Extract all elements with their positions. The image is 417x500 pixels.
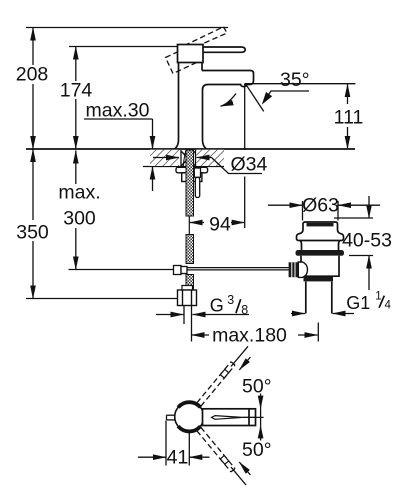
supply connection line (max300 bottom) [69,269,174,271]
svg-text:G: G [210,296,224,316]
dimension max180 [192,323,319,342]
faucet handle lever raised dashed [185,27,228,50]
handle top view circle [175,402,204,431]
dimension G3/8 [156,296,384,315]
svg-text:Ø63: Ø63 [302,195,339,217]
drain side outlet [298,262,307,277]
dimension Ø63 [268,201,380,221]
handle circle thick arcs [178,402,200,431]
drain plug cap [303,222,338,230]
svg-text:35°: 35° [280,69,310,91]
supply pipe end [184,306,192,325]
svg-text:208: 208 [16,64,49,86]
deck top line [26,148,355,150]
svg-text:174: 174 [60,80,93,102]
washer under deck [176,167,208,173]
lever top view [203,409,256,426]
dashed lever 50 down [197,427,235,472]
dimension 174 [75,47,77,150]
svg-text:max.30: max.30 [86,100,150,122]
handle base [178,45,204,63]
flow arc arrow [221,94,237,107]
faucet body [175,63,207,150]
mounting nut [182,173,202,182]
50 deg ray upper [231,346,251,370]
drain neck [301,241,340,251]
pop-up rod vertical [194,168,200,198]
drain rim [297,230,344,241]
dimension max300 [75,151,77,270]
35 degree annotation [245,84,356,228]
pop-up linkage block [174,266,188,275]
50 deg ray lower [231,462,251,485]
svg-text:300: 300 [63,208,96,230]
reference line top (lever max height) [26,27,228,29]
handle base raised dashed [166,47,197,74]
dimension max30 [84,119,153,191]
svg-text:50°: 50° [242,439,272,461]
deck bottom line [143,166,224,168]
pop-up rod horizontal [187,268,289,270]
dashed lever 50 up [197,362,235,407]
svg-text:41: 41 [167,447,189,469]
drain seal flange [296,250,345,256]
svg-text:3: 3 [227,293,234,307]
dimension 350 [32,149,34,299]
drain body [301,256,339,276]
lever tip angle reference arrows [242,394,263,441]
dimension 111 [347,84,349,149]
svg-text:Ø34: Ø34 [231,154,268,176]
svg-text:40-53: 40-53 [342,230,392,252]
svg-text:max.: max. [58,182,100,204]
drain plug lip [307,223,334,226]
svg-text:4: 4 [385,299,392,311]
svg-text:1: 1 [375,291,381,303]
shank inner hoses [183,150,191,167]
svg-text:350: 350 [16,222,49,244]
drain body lip [304,277,334,282]
outlet knurled nut [289,262,299,277]
dimension 40-53 [334,196,373,290]
deck hatch left [150,150,179,166]
drain tailpipe [306,282,332,314]
faucet shank in deck [181,150,196,167]
dimension G1 1/4 [291,313,354,315]
reference line 174 level [69,46,178,48]
deck hatch right [197,150,225,166]
braided hose upper [186,150,194,290]
svg-text:50°: 50° [242,376,272,398]
dimension Ø34 leader [153,158,262,174]
dimension 41 [138,421,210,466]
svg-text:G1: G1 [346,293,370,313]
svg-text:max.180: max.180 [212,325,287,347]
dimension 94 [190,222,245,224]
svg-text:94: 94 [209,214,231,236]
handle tab left [167,415,176,420]
hose end line (350 bottom) [26,298,178,300]
faucet handle lever [202,47,245,52]
hose fitting G3/8 [178,290,197,306]
svg-text:111: 111 [334,107,364,129]
spout [202,71,254,90]
dimension 208 [32,28,34,150]
svg-text:8: 8 [241,303,248,317]
hose collar [182,286,193,291]
